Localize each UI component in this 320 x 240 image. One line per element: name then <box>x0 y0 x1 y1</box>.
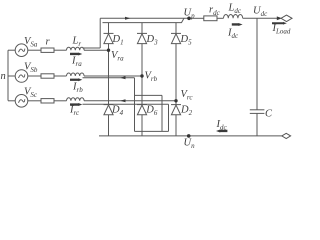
svg-text:D6: D6 <box>145 104 158 117</box>
svg-text:D5: D5 <box>180 34 193 47</box>
svg-text:Vrb: Vrb <box>145 71 158 84</box>
svg-text:ILoad: ILoad <box>272 23 291 36</box>
svg-text:Irb: Irb <box>72 82 83 95</box>
svg-text:D3: D3 <box>146 34 159 47</box>
svg-text:Idc: Idc <box>227 28 239 41</box>
svg-text:Lr: Lr <box>72 36 82 49</box>
svg-text:n: n <box>1 71 6 82</box>
svg-text:Vra: Vra <box>111 50 124 63</box>
svg-text:D1: D1 <box>112 34 124 47</box>
svg-text:Ldc: Ldc <box>228 3 242 16</box>
svg-text:Idc: Idc <box>216 119 228 132</box>
svg-text:r: r <box>46 37 51 48</box>
svg-text:rdc: rdc <box>209 5 221 18</box>
svg-text:Un: Un <box>184 138 196 151</box>
svg-text:D4: D4 <box>111 104 124 117</box>
svg-text:Udc: Udc <box>253 6 268 19</box>
svg-text:D2: D2 <box>180 104 193 117</box>
svg-text:C: C <box>265 109 273 120</box>
svg-text:Vrc: Vrc <box>181 89 194 102</box>
svg-text:VSb: VSb <box>24 62 38 75</box>
svg-text:Ira: Ira <box>71 55 82 68</box>
svg-text:VSa: VSa <box>24 36 38 49</box>
svg-text:VSc: VSc <box>24 87 38 100</box>
svg-text:Irc: Irc <box>69 105 80 118</box>
svg-text:Up: Up <box>184 8 196 21</box>
